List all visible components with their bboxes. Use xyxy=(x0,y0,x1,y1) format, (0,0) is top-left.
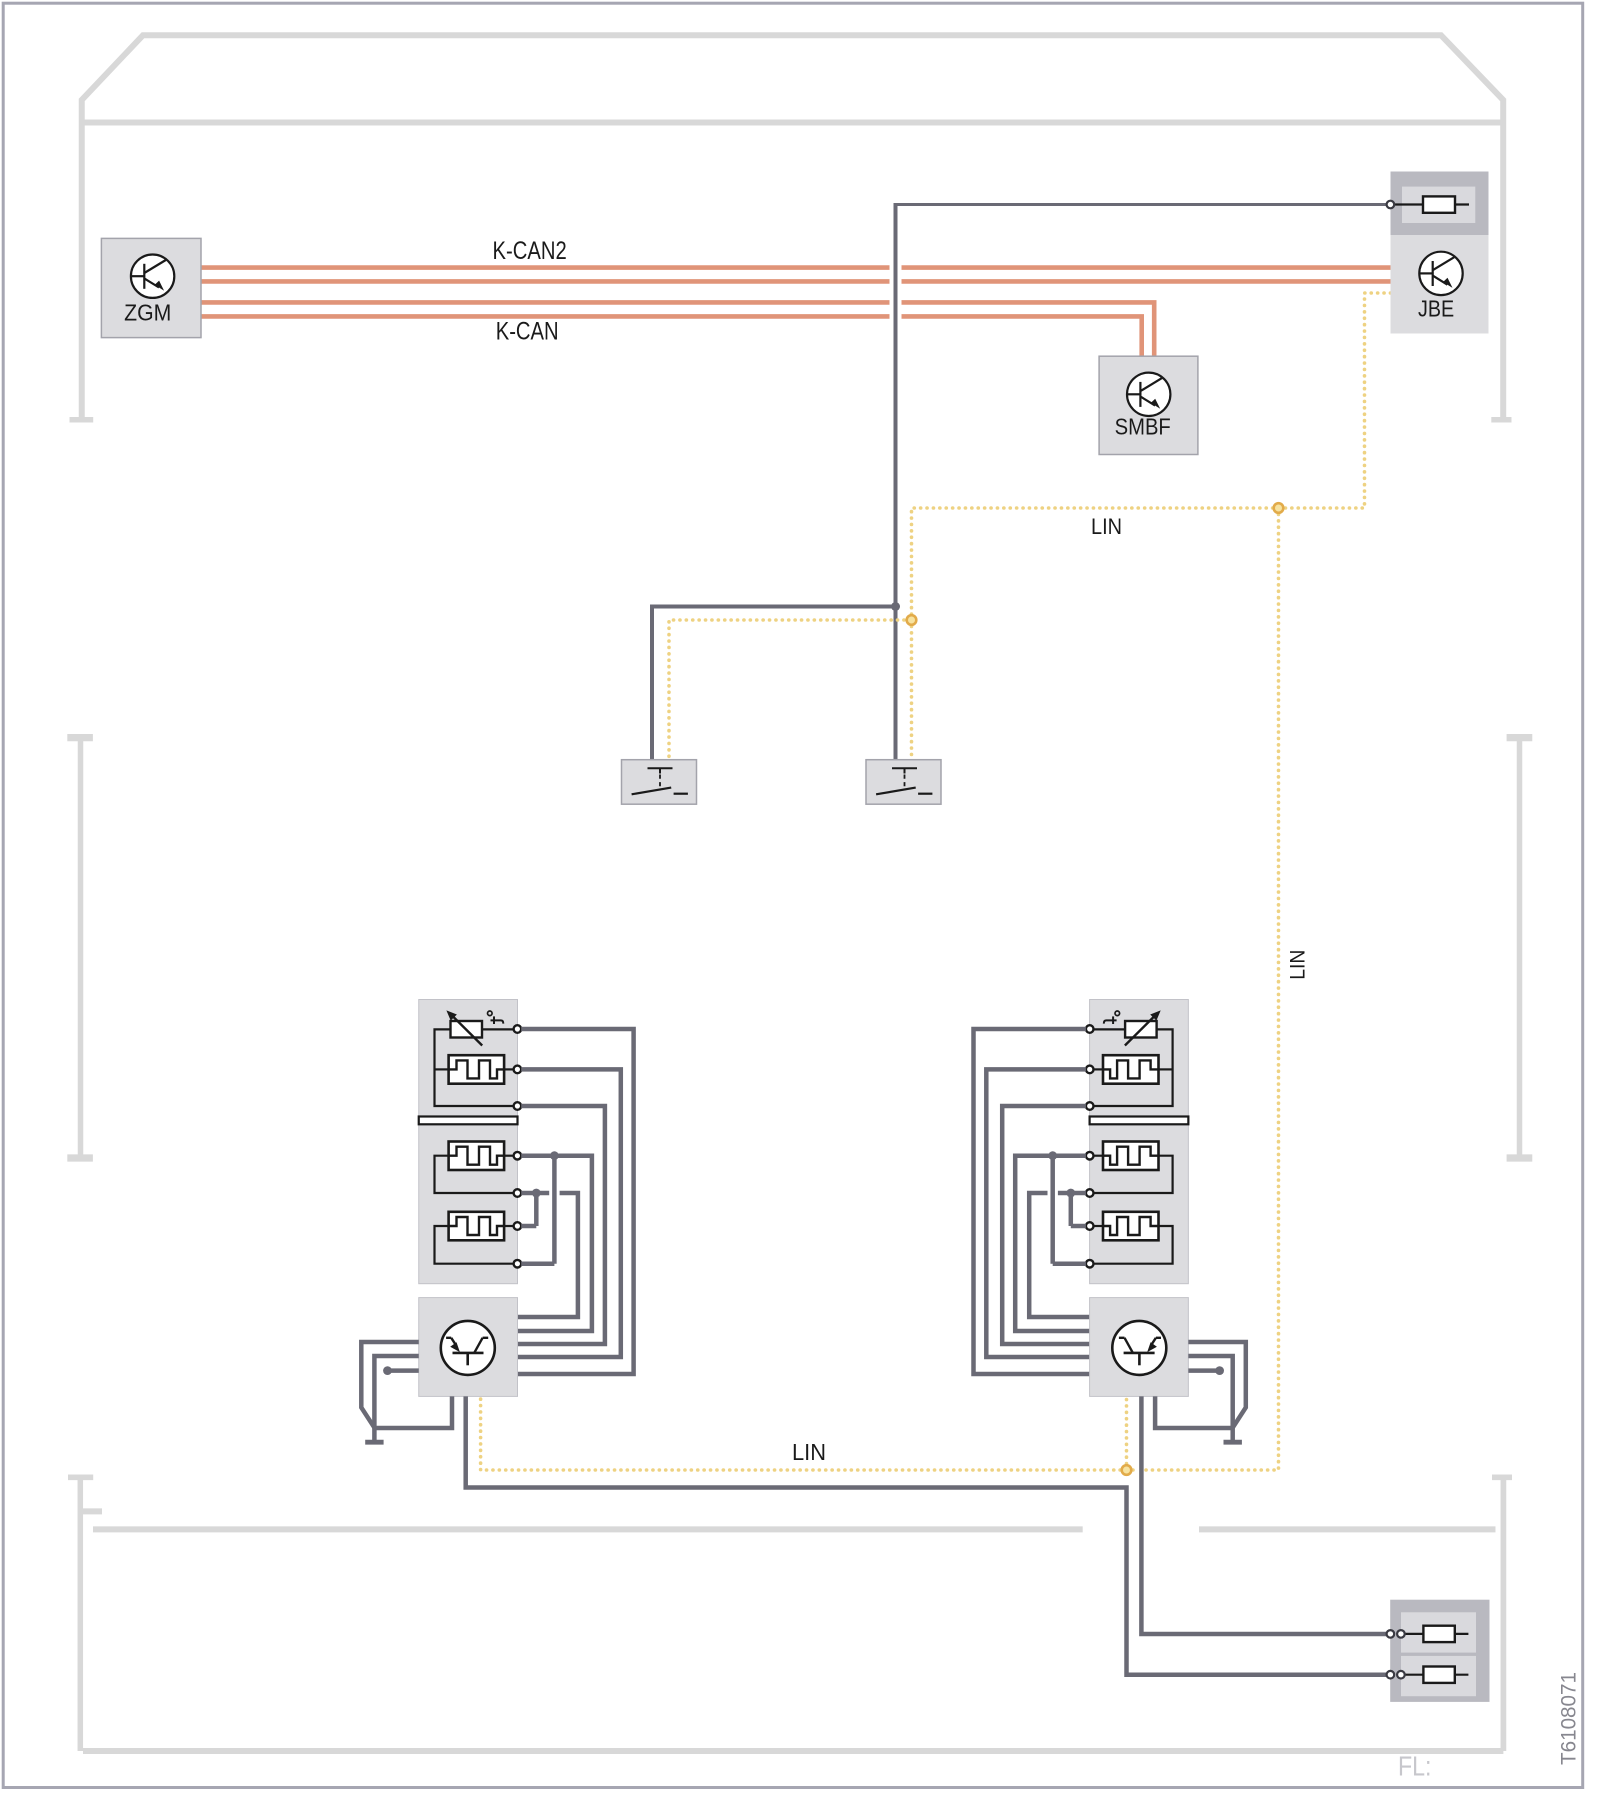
heater element 2 (cushion), right seat xyxy=(1103,1142,1159,1171)
control unit ZGM box xyxy=(101,238,201,337)
wire: heater 2 riser to pin 5, right module xyxy=(1094,1156,1173,1193)
wire link pin4-pin7, right module xyxy=(1050,1156,1055,1264)
wire loop pin1 to driver, left module xyxy=(518,1029,634,1374)
label LIN (top) xyxy=(1091,514,1122,539)
wire loop pin3 to driver, right module xyxy=(1002,1106,1089,1344)
wire: heater 3 to pin 6, right module xyxy=(1094,1225,1104,1227)
terminals at fuse 2 xyxy=(1387,1671,1405,1679)
bus K-CAN2 line b (ZGM to JBE) xyxy=(200,279,1391,284)
control unit symbol SMBF xyxy=(1127,373,1170,416)
wire: branch to left switch xyxy=(652,607,896,760)
junction pin5 link, left module xyxy=(532,1189,541,1198)
wire: riser to heater element 1, right module xyxy=(1159,1068,1173,1070)
wire loop pin3 to driver, left module xyxy=(518,1106,605,1344)
t-degree mark right seat sensor xyxy=(1104,1011,1120,1024)
junction pin5 link, right module xyxy=(1066,1189,1075,1198)
switch symbol left button xyxy=(632,768,688,794)
svg-text:FL:: FL: xyxy=(1398,1751,1432,1782)
car body: roof and pillars outline xyxy=(82,35,1503,417)
car body: rear right pillar xyxy=(1492,1477,1512,1751)
label K-CAN xyxy=(496,317,559,345)
pin 6 terminal, left module xyxy=(514,1222,522,1230)
control unit JBE box xyxy=(1391,235,1489,334)
splice stub on driver, left module xyxy=(383,1366,419,1375)
wire driver bottom to ground, left module xyxy=(374,1396,452,1428)
wire driver to ground (outer), right module xyxy=(1188,1342,1245,1428)
LIN junction at switch column xyxy=(907,615,917,625)
bus K-CAN line a (ZGM to SMBF) xyxy=(200,302,1154,356)
pin 2 terminal, left module xyxy=(514,1066,522,1074)
wire: heater 3 riser to pin 7, left module xyxy=(435,1226,514,1264)
control unit symbol JBE xyxy=(1419,252,1462,295)
fuse in JBE xyxy=(1394,196,1469,212)
wire: sensor to pin 1, right module xyxy=(1094,1028,1126,1030)
label LIN (vertical) xyxy=(1287,950,1310,980)
car body: left pillar foot xyxy=(70,417,94,423)
control unit SMBF box xyxy=(1099,356,1198,454)
wire pin7 stub, left module xyxy=(521,1261,554,1266)
fuse 1 (rear box) xyxy=(1405,1626,1469,1642)
pin 1 terminal, right module xyxy=(1086,1025,1094,1033)
left seat heating/fan module group xyxy=(361,1000,633,1443)
label JBE xyxy=(1418,296,1454,322)
LIN bus: JBE to switches (dotted) xyxy=(669,293,1391,760)
wire: sensor to pin 1, left module xyxy=(482,1028,514,1030)
pin 7 terminal, left module xyxy=(514,1260,522,1268)
seat module right: carrier box xyxy=(1090,1000,1189,1284)
svg-text:SMBF: SMBF xyxy=(1115,414,1171,440)
control unit symbol ZGM xyxy=(131,255,174,298)
terminal at JBE fuse xyxy=(1387,201,1395,209)
wire loop pin2 to driver, left module xyxy=(518,1069,621,1357)
svg-text:LIN: LIN xyxy=(792,1439,826,1465)
ground, right seat module xyxy=(1224,1428,1242,1442)
wire: heater 3 to pin 6, left module xyxy=(504,1225,513,1227)
seat module left: separator bar xyxy=(419,1117,518,1125)
wire driver to ground (outer), left module xyxy=(361,1342,418,1428)
car body: rear deck line left segment xyxy=(93,1526,1083,1532)
seat heating button left xyxy=(622,760,697,805)
wire: heater 2 riser to pin 5, left module xyxy=(435,1156,514,1193)
svg-text:K-CAN: K-CAN xyxy=(496,317,559,345)
drawing number T6108071 xyxy=(1557,1672,1580,1765)
wire loop pin4 to driver, right module xyxy=(1015,1156,1089,1331)
terminals at fuse 1 xyxy=(1387,1630,1405,1638)
wire: heater 2 to pin 4, left module xyxy=(504,1155,513,1157)
LIN junction at right seat module drop xyxy=(1122,1465,1132,1475)
pin 3 terminal, right module xyxy=(1086,1102,1094,1110)
pin 5 terminal, left module xyxy=(514,1189,522,1197)
svg-text:T6108071: T6108071 xyxy=(1557,1672,1580,1765)
motor driver transistor symbol, right module xyxy=(1112,1321,1166,1375)
seat module left: motor driver box xyxy=(419,1298,518,1397)
pin 6 terminal, right module xyxy=(1086,1222,1094,1230)
car body: windscreen base line xyxy=(82,120,1503,126)
label LIN (bottom) xyxy=(792,1439,826,1465)
pin 5 terminal, right module xyxy=(1086,1189,1094,1197)
wire loop pin4 to driver, left module xyxy=(518,1156,592,1331)
pin 1 terminal, left module xyxy=(514,1025,522,1033)
heater element 3 (cushion), right seat xyxy=(1103,1212,1159,1241)
t-degree mark left seat sensor xyxy=(488,1011,504,1024)
label K-CAN2 xyxy=(493,237,567,265)
LIN bus: long branch to seat modules (dotted) xyxy=(481,508,1279,1470)
label FL: xyxy=(1398,1751,1432,1782)
wire: riser to heater element 1, left module xyxy=(435,1068,449,1070)
junction box electronics JBE: fuse carrier xyxy=(1391,172,1489,236)
wire: right module to rear fuse 1 xyxy=(1141,1396,1386,1634)
right seat heating/fan module group xyxy=(974,1000,1246,1443)
wire link pin5-pin6, right module xyxy=(1069,1193,1074,1226)
motor driver transistor symbol, left module xyxy=(441,1321,495,1375)
pin 3 terminal, left module xyxy=(514,1102,522,1110)
seat module right: motor driver box xyxy=(1090,1298,1189,1397)
wire loop pin5 to driver (with crossover gap), left module xyxy=(518,1193,578,1317)
LIN junction at south branch xyxy=(1274,503,1284,513)
svg-text:LIN: LIN xyxy=(1287,950,1310,980)
wire loop pin5 to driver (with crossover gap), right module xyxy=(1029,1193,1089,1317)
heater element 1 (backrest), left seat xyxy=(449,1055,505,1084)
car body: right sill beam xyxy=(1507,738,1533,1158)
car body: rear deck line right segment xyxy=(1199,1526,1496,1532)
rear power distribution fuse box xyxy=(1390,1600,1489,1702)
heater element 2 (cushion), left seat xyxy=(449,1142,505,1171)
wire: heater 3 riser to pin 7, right module xyxy=(1094,1226,1173,1264)
heater element 1 (backrest), right seat xyxy=(1103,1055,1159,1084)
wire link pin5-pin6, left module xyxy=(534,1193,539,1226)
switch symbol right button xyxy=(876,768,932,794)
junction: power split to both switches xyxy=(891,602,900,611)
wire: heater 1 to pin 2, right module xyxy=(1094,1068,1104,1070)
heater element 3 (cushion), left seat xyxy=(449,1212,505,1241)
wire: sensor/heater left riser to pin 3, right module xyxy=(1094,1029,1173,1106)
bus K-CAN2 line a (ZGM to JBE) xyxy=(200,265,1391,270)
temperature sensor (NTC) left seat xyxy=(446,1010,482,1045)
temperature sensor (NTC) right seat xyxy=(1125,1010,1161,1045)
wire loop pin1 to driver, right module xyxy=(974,1029,1090,1374)
wire pin6 stub, left module xyxy=(521,1224,536,1229)
wire loop pin2 to driver, right module xyxy=(986,1069,1089,1357)
splice stub on driver, right module xyxy=(1188,1366,1224,1375)
pin 4 terminal, left module xyxy=(514,1152,522,1160)
car body: left sill beam xyxy=(67,738,93,1158)
seat heating button right xyxy=(866,760,941,805)
pin 7 terminal, right module xyxy=(1086,1260,1094,1268)
wire pin7 stub, right module xyxy=(1053,1261,1086,1266)
wire link pin4-pin7, left module xyxy=(552,1156,557,1264)
label ZGM xyxy=(124,300,171,326)
svg-text:JBE: JBE xyxy=(1418,296,1454,322)
wire: branch to right switch xyxy=(894,607,898,760)
wire pin6 stub, right module xyxy=(1071,1224,1086,1229)
fuse 2 (rear box) xyxy=(1405,1667,1469,1683)
wire driver to ground (inner), left module xyxy=(374,1356,418,1428)
wire: sensor/heater left riser to pin 3, left module xyxy=(435,1029,514,1106)
junction pin4 link, right module xyxy=(1048,1151,1057,1160)
wire driver to ground (inner), right module xyxy=(1188,1356,1232,1428)
wire: left module to rear fuse 2 xyxy=(466,1396,1387,1674)
junction pin4 link, left module xyxy=(550,1151,559,1160)
wire: heater 2 to pin 4, right module xyxy=(1094,1155,1104,1157)
label SMBF xyxy=(1115,414,1171,440)
car body: rear panel bottom line xyxy=(83,1748,1503,1754)
bus K-CAN line b (ZGM to SMBF) xyxy=(200,316,1142,356)
svg-text:K-CAN2: K-CAN2 xyxy=(493,237,567,265)
car body: right pillar foot xyxy=(1491,417,1511,423)
svg-text:ZGM: ZGM xyxy=(124,300,171,326)
svg-text:LIN: LIN xyxy=(1091,514,1122,539)
wire driver bottom to ground, right module xyxy=(1155,1396,1233,1428)
ground, left seat module xyxy=(365,1428,383,1442)
pin 2 terminal, right module xyxy=(1086,1066,1094,1074)
seat module right: separator bar xyxy=(1090,1117,1189,1125)
wire: heater 1 to pin 2, left module xyxy=(504,1068,513,1070)
wire: power feed from JBE fuse down to switches xyxy=(896,203,1387,607)
car body: rear left pillar xyxy=(68,1477,102,1751)
pin 4 terminal, right module xyxy=(1086,1152,1094,1160)
seat module left: carrier box xyxy=(419,1000,518,1284)
